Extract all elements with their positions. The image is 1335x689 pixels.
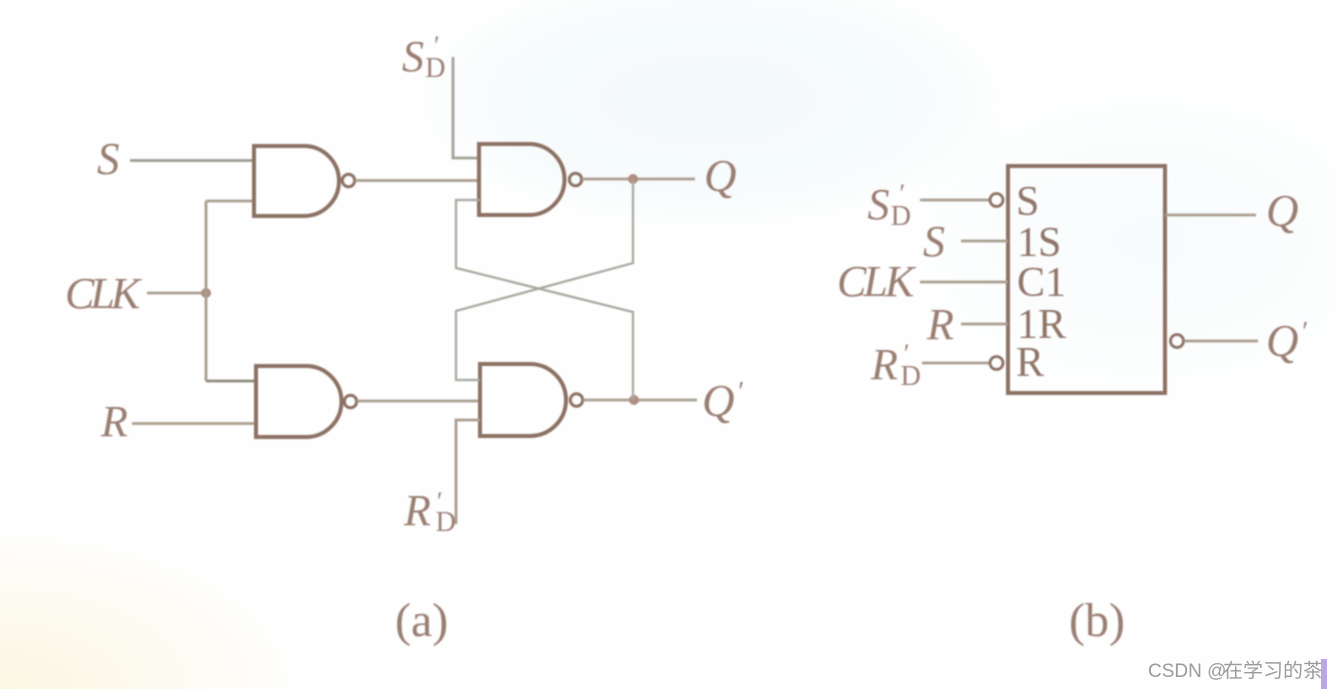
wire Q' output (b) — [1184, 340, 1258, 343]
pin RD' with bubble — [922, 362, 989, 365]
wire gate1 output to gate3 middle input — [355, 179, 479, 182]
svg-text:C1: C1 — [1017, 260, 1066, 306]
wire CLK input — [147, 292, 206, 295]
pin 1R — [961, 323, 1008, 326]
svg-text:S: S — [923, 217, 945, 266]
wire feedback Q' to gate3 bottom input (cross) — [456, 200, 633, 400]
bubble on R pin — [990, 357, 1003, 370]
wire CLK vertical to gate1 and gate2 — [205, 201, 208, 381]
bubble on S pin — [990, 194, 1003, 207]
wire S input to gate 1 — [130, 159, 254, 162]
svg-text:R: R — [1016, 340, 1044, 386]
pin SD' with bubble — [920, 199, 989, 202]
wire feedback Q to gate4 top input (cross) — [456, 179, 633, 380]
watermark cursor bar — [1321, 659, 1327, 689]
svg-text:(a): (a) — [395, 594, 448, 647]
svg-text:R: R — [926, 300, 954, 349]
svg-text:S: S — [1016, 179, 1039, 225]
wire gate4 output to Q' — [583, 399, 697, 402]
svg-text:CSDN @: CSDN @ — [1148, 661, 1226, 682]
nand gate 4 (bottom right) — [480, 364, 583, 436]
svg-text:S′D: S′D — [402, 31, 445, 84]
nand gate 2 (bottom left, inputs CLK and R) — [256, 366, 357, 437]
watermark CJK glyph paths — [1224, 661, 1323, 680]
pin C1 — [920, 281, 1008, 284]
wire RD' input vertical — [456, 420, 480, 524]
junction Q node dot — [628, 174, 638, 184]
wire CLK branch to gate 1 lower input — [206, 200, 254, 203]
wire CLK branch to gate 2 upper input — [206, 380, 256, 383]
nand gate 3 (top right) — [479, 144, 582, 215]
svg-text:(b): (b) — [1069, 594, 1125, 647]
svg-text:CLK: CLK — [837, 257, 917, 306]
wire Q output (b) — [1165, 214, 1256, 217]
wire R input to gate 2 — [132, 422, 256, 425]
wire gate3 output to Q — [582, 178, 695, 181]
wire gate2 output to gate4 middle input — [357, 400, 480, 403]
block symbol box (b) — [1008, 166, 1165, 393]
nand gate 1 (top left, inputs S and CLK) — [254, 146, 355, 216]
wire SD' input vertical — [453, 57, 479, 158]
svg-text:Q: Q — [704, 151, 737, 201]
svg-text:Q: Q — [1266, 186, 1299, 236]
bubble on Q' output (b) — [1171, 335, 1184, 348]
junction CLK node dot — [201, 288, 211, 298]
svg-text:S: S — [97, 134, 120, 184]
svg-text:R: R — [100, 397, 128, 446]
junction Q' node dot — [629, 395, 639, 405]
svg-text:CLK: CLK — [65, 269, 143, 318]
pin 1S — [961, 240, 1008, 243]
svg-text:S′D: S′D — [868, 179, 911, 232]
